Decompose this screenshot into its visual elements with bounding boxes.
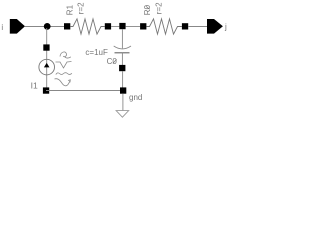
svg-text:c=1uF: c=1uF: [85, 48, 108, 57]
wire: [111, 26, 119, 28]
waveform glyph (deep U with hook): [55, 79, 71, 86]
current source I1: [39, 44, 55, 93]
svg-text:r=2: r=2: [77, 2, 86, 14]
svg-text:i: i: [1, 23, 3, 32]
wire: [188, 26, 207, 28]
wire: [126, 26, 141, 28]
output port: [207, 19, 223, 34]
svg-text:R0: R0: [143, 4, 152, 15]
resistor R1: [64, 19, 111, 34]
waveform glyph (double wave): [56, 73, 72, 75]
wire: [25, 26, 65, 28]
svg-text:j: j: [224, 23, 227, 32]
waveform glyph (sine with loop): [60, 52, 71, 58]
svg-text:I1: I1: [31, 81, 38, 91]
input port: [10, 19, 25, 34]
wire (capacitor to ground junction): [122, 71, 124, 88]
wire (vertical, current source branch): [46, 28, 48, 88]
capacitor C0: [114, 23, 131, 71]
ground junction square: [120, 87, 126, 93]
resistor R0: [140, 19, 188, 34]
svg-text:r=2: r=2: [155, 2, 164, 14]
node junction dot: [44, 23, 51, 30]
svg-text:C0: C0: [107, 57, 118, 66]
svg-text:R1: R1: [65, 4, 74, 15]
svg-text:gnd: gnd: [129, 93, 142, 102]
ground: [116, 94, 129, 118]
waveform glyph (line-V-line): [56, 62, 72, 69]
wire (bottom rail): [46, 90, 123, 92]
